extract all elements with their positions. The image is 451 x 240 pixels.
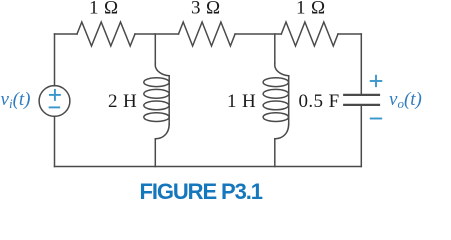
- resistor R1 1 ohm: [77, 22, 135, 46]
- voltage source plus sign: [50, 90, 60, 100]
- svg-text:2 H: 2 H: [108, 91, 137, 112]
- voltage source minus sign: [50, 106, 60, 108]
- wire left lower vertical: [54, 116, 56, 166]
- svg-text:3 Ω: 3 Ω: [191, 0, 221, 19]
- capacitor C1 top plate: [344, 94, 379, 96]
- wire right lower vertical: [360, 105, 362, 166]
- svg-text:0.5 F: 0.5 F: [299, 91, 340, 112]
- wire top middle 2: [235, 33, 281, 35]
- resistor R2 3 ohm: [179, 22, 236, 46]
- wire top-right horizontal: [338, 33, 361, 35]
- svg-text:vo(t): vo(t): [389, 89, 422, 111]
- wire bottom: [55, 166, 362, 168]
- wire node B drop to L2: [274, 34, 276, 64]
- svg-text:1 Ω: 1 Ω: [89, 0, 119, 19]
- wire right upper vertical: [360, 34, 362, 94]
- resistor R3 1 ohm: [281, 22, 338, 46]
- capacitor plus sign: [371, 76, 382, 86]
- wire node A drop to L1: [154, 34, 156, 64]
- svg-text:1 H: 1 H: [227, 91, 256, 112]
- wire L2 to bottom: [274, 139, 276, 166]
- svg-text:vi(t): vi(t): [1, 89, 31, 111]
- wire top middle 1: [135, 33, 179, 35]
- capacitor C1 bottom plate: [344, 104, 379, 106]
- capacitor minus sign: [371, 118, 382, 120]
- voltage source Vi circle: [39, 86, 70, 117]
- svg-text:1 Ω: 1 Ω: [296, 0, 326, 19]
- inductor L2 1H coil: [263, 64, 289, 140]
- inductor L1 2H coil: [144, 64, 169, 140]
- wire left upper vertical: [54, 34, 56, 86]
- wire top-left horizontal: [55, 33, 78, 35]
- wire L1 to bottom: [154, 139, 156, 166]
- svg-text:FIGURE P3.1: FIGURE P3.1: [140, 179, 263, 204]
